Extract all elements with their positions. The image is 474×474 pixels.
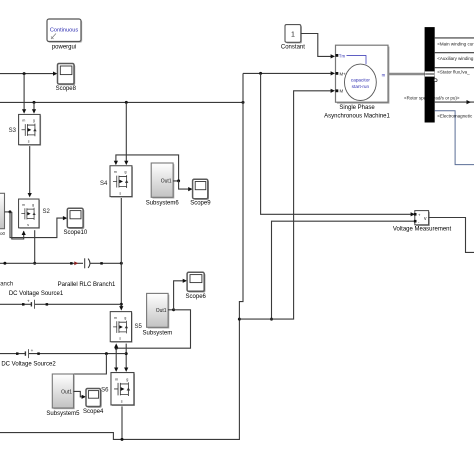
subsystem6 block <box>146 163 180 206</box>
wire S6 bottom to return net <box>121 406 123 439</box>
wire node to machine M+ <box>243 71 335 75</box>
bus selector output 4 <box>435 100 474 104</box>
junction dot battery1 net <box>120 303 123 306</box>
wire left block output <box>5 211 11 213</box>
junction dot E <box>270 318 273 321</box>
junction dot F <box>238 318 241 321</box>
junction dot bus right end <box>242 101 245 104</box>
svg-text:M+: M+ <box>340 71 347 76</box>
Scope10 <box>64 208 88 236</box>
transistor S3 <box>9 114 41 145</box>
svg-text:Subsystem6: Subsystem6 <box>146 200 180 206</box>
svg-text:S3: S3 <box>9 128 17 134</box>
svg-text:S4: S4 <box>100 181 108 187</box>
transistor S2 <box>19 199 51 229</box>
junction dot G <box>172 308 175 311</box>
svg-text:o0: o0 <box>0 231 6 236</box>
wire long return net: bus end down, jog, to bottom loop <box>0 102 243 439</box>
junction dot D <box>259 72 262 75</box>
svg-text:Out1: Out1 <box>156 308 167 314</box>
svg-text:Constant: Constant <box>281 45 305 51</box>
wire S5 bottom port2 to S6 port2 <box>124 344 128 372</box>
subsystem sliver block (left edge) <box>0 193 6 236</box>
wire S4 bottom down to S5 <box>119 198 123 311</box>
svg-text:start-run: start-run <box>352 84 370 89</box>
wire subsystem out <box>168 309 174 311</box>
junction dot cap wire right / S4 net <box>120 262 123 265</box>
bus selector output 5 (blue) <box>435 111 474 165</box>
subsystem5 block <box>46 374 80 417</box>
junction dot on bus at S3 <box>33 101 36 104</box>
wire constant to machine Tm <box>301 34 335 59</box>
svg-text:Out1: Out1 <box>161 179 172 185</box>
wire S2 bottom port2 down <box>34 230 36 263</box>
junction dot cap wire left <box>3 262 6 265</box>
wire node-A to Scope8 <box>0 72 57 76</box>
wire bus to S3 port2 <box>32 102 36 113</box>
wire C to Scope9 <box>179 181 193 191</box>
transistor S5 <box>110 312 142 343</box>
svg-text:Tm: Tm <box>339 53 346 58</box>
svg-text:Scope4: Scope4 <box>83 409 104 415</box>
junction dot B <box>9 210 12 213</box>
svg-text:capacitor: capacitor <box>351 77 370 82</box>
wire G to Scope6 <box>174 279 188 310</box>
wire B to Scope10 <box>10 212 67 238</box>
svg-text:+: + <box>31 348 34 353</box>
svg-text:S2: S2 <box>43 209 51 215</box>
svg-text:Parallel RLC Branch: Parallel RLC Branch <box>0 282 13 288</box>
bus selector <box>425 27 438 122</box>
svg-text:Asynchronous Machine1: Asynchronous Machine1 <box>324 113 390 119</box>
svg-text:Subsystem: Subsystem <box>143 330 173 336</box>
svg-text:<Stator flux,lva_: <Stator flux,lva_ <box>437 69 470 74</box>
svg-text:Scope10: Scope10 <box>64 230 88 236</box>
svg-text:Subsystem5: Subsystem5 <box>46 411 80 417</box>
main bus wire <box>0 101 243 103</box>
svg-text:powergui: powergui <box>52 45 76 51</box>
svg-text:<Main winding curre: <Main winding curre <box>437 41 474 46</box>
wire H down to S6 port1 <box>114 348 118 372</box>
junction dot on bus at S4 <box>125 101 128 104</box>
transistor S4 <box>100 166 133 198</box>
capacitor wire (parallel RLC branch1) <box>0 261 121 265</box>
wire B to S2 bottom port1 <box>12 212 26 239</box>
svg-text:Scope6: Scope6 <box>186 294 207 300</box>
wire bus to S4 port2 <box>124 102 128 165</box>
svg-text:m: m <box>382 72 386 77</box>
svg-text:Scope8: Scope8 <box>56 86 77 92</box>
wire voltage measurement - to node E <box>272 221 415 319</box>
svg-text:Out1: Out1 <box>61 389 72 395</box>
svg-text:Parallel RLC Branch1: Parallel RLC Branch1 <box>58 282 116 288</box>
wire S3 to S2 <box>28 146 32 197</box>
svg-text:1: 1 <box>291 32 295 39</box>
Scope8 <box>56 64 77 93</box>
svg-text:S5: S5 <box>135 324 143 330</box>
single phase asynchronous machine U1 <box>324 45 390 119</box>
subsystem block (middle) <box>143 293 173 336</box>
wire subsystem5 out to Scope4 <box>74 391 87 399</box>
wire voltage measurement output <box>429 218 474 253</box>
svg-text:DC Voltage Source2: DC Voltage Source2 <box>1 361 56 367</box>
svg-text:Scope9: Scope9 <box>190 200 211 206</box>
svg-text:<Electromagnetic: <Electromagnetic <box>437 114 473 119</box>
svg-text:S6: S6 <box>101 387 109 393</box>
wire A down to S3 port1 <box>22 74 26 114</box>
battery V2 <box>25 348 33 358</box>
junction dot C <box>177 179 180 182</box>
powergui block <box>47 19 82 51</box>
wire vertical from M+ net down to bus <box>242 73 244 102</box>
wire node F to machine M <box>239 89 335 319</box>
wire G to S5/S6 gates <box>114 310 190 348</box>
svg-text:M: M <box>340 89 344 94</box>
battery V1 <box>27 299 35 309</box>
junction dot I on battery2 net <box>125 352 128 355</box>
junction dot H <box>115 347 118 350</box>
wire subsystem6 out to S4 gate <box>114 155 179 181</box>
wire J down to subsystem5 top <box>74 354 107 374</box>
wire D down to voltage measurement + <box>261 73 415 216</box>
svg-text:DC Voltage Source1: DC Voltage Source1 <box>9 291 64 297</box>
svg-text:Voltage Measurement: Voltage Measurement <box>393 227 452 233</box>
svg-text:+: + <box>27 299 30 304</box>
svg-text:<Auxiliary winding: <Auxiliary winding <box>437 56 474 61</box>
capacitor C1 plates <box>85 258 90 268</box>
constant block <box>281 25 305 51</box>
DC voltage source2 wire <box>0 352 126 355</box>
bus selector output 3 <box>435 68 474 75</box>
svg-text:Continuous: Continuous <box>50 28 79 34</box>
junction dot A <box>23 72 26 75</box>
junction dot K <box>121 438 124 441</box>
bus selector output 1 <box>435 38 474 46</box>
Scope4 <box>83 389 104 416</box>
svg-text:Single Phase: Single Phase <box>339 105 375 111</box>
DC voltage source1 wire <box>0 303 121 306</box>
thick bus signal machine to bus selector <box>388 73 425 76</box>
junction dot J <box>105 352 108 355</box>
transistor S6 <box>101 373 135 406</box>
voltage measurement block <box>393 211 452 233</box>
bus selector output 2 <box>435 53 474 61</box>
Scope6 <box>186 272 207 300</box>
junction dot on cap wire <box>33 262 36 265</box>
Scope9 <box>190 179 211 206</box>
